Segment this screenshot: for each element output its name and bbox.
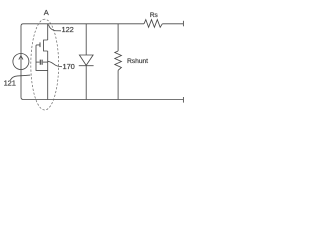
resistor Rshunt zigzag	[115, 51, 122, 70]
wire bottom rail with rounded bottom-left corner	[21, 97, 183, 99]
transistor 122 source line down to bottom rail	[47, 51, 49, 100]
resistor Rs zigzag	[144, 20, 162, 28]
diode D triangle	[79, 55, 93, 65]
transistor 122 drain lead	[47, 24, 49, 40]
leader line for 122	[48, 25, 61, 31]
current source I 121 circle	[13, 54, 29, 70]
leader line for 170	[48, 61, 62, 66]
terminal tick bottom right	[182, 97, 184, 103]
svg-text:170: 170	[63, 62, 75, 71]
diode branch top wire	[85, 24, 87, 55]
svg-text:Rs: Rs	[150, 12, 159, 19]
svg-text:A: A	[44, 8, 49, 17]
leader line for 121	[10, 75, 30, 80]
transistor 122 channel bracket	[44, 40, 48, 51]
dashed ellipse region A	[31, 19, 59, 110]
Rshunt bottom wire	[117, 70, 119, 99]
wire left branch vertical lower part	[20, 54, 22, 98]
current source arrow head	[19, 56, 23, 60]
svg-text:Rshunt: Rshunt	[127, 58, 148, 65]
diode branch bottom wire	[85, 66, 87, 100]
wire top rail left segment with rounded top-left corner	[21, 24, 144, 54]
capacitor 170 right lead	[43, 61, 48, 63]
wire top rail right segment after Rs	[162, 23, 183, 25]
diode cathode bar	[79, 65, 94, 67]
svg-text:122: 122	[62, 25, 74, 34]
capacitor 170 plates	[40, 60, 42, 65]
svg-text:121: 121	[4, 79, 16, 88]
transistor 122 gate bar	[39, 42, 41, 47]
Rshunt branch top wire	[117, 24, 119, 51]
terminal tick top right	[182, 21, 184, 27]
transistor 122 gate lead and gate rail tied to source	[36, 45, 48, 71]
capacitor 170 left lead	[36, 61, 40, 63]
